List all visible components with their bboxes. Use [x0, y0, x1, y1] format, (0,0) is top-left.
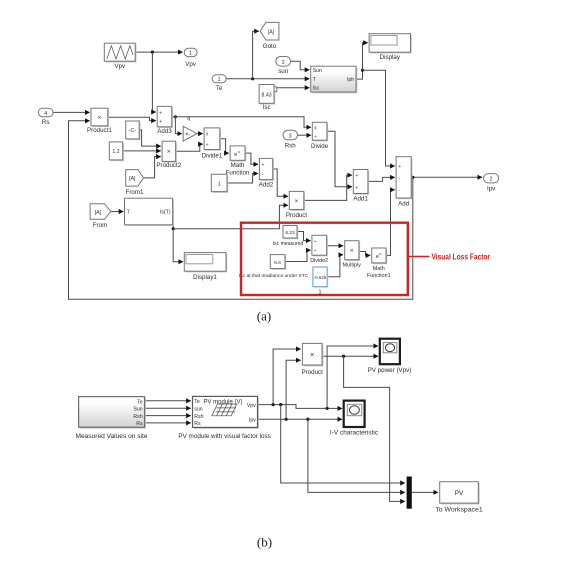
wire Math Function1 out to Add in3 [386, 190, 395, 256]
from tag [A] From [90, 204, 111, 229]
svg-text:1.2: 1.2 [112, 149, 119, 155]
wire Measured Rs to PV module Rs [145, 422, 191, 424]
wire Add1 out to Add in2 [368, 177, 395, 181]
product Product [286, 191, 308, 218]
wire Math Function out to Add2 in1 [245, 153, 258, 164]
wire Multiply out to Math Function1 [359, 252, 370, 256]
svg-text:×: × [310, 350, 314, 359]
wire Divide2 out to Multiply in1 [327, 245, 343, 247]
svg-text:Te: Te [137, 399, 143, 405]
svg-text:Function1: Function1 [367, 273, 391, 279]
svg-text:+: + [262, 163, 265, 169]
svg-text:Measured Values on site: Measured Values on site [76, 433, 149, 440]
svg-text:sun: sun [278, 68, 289, 75]
svg-text:-C-: -C- [129, 128, 136, 134]
svg-text:4: 4 [44, 111, 47, 117]
svg-text:Isc at that irradiance under S: Isc at that irradiance under STC [239, 273, 309, 279]
svg-text:×: × [167, 149, 171, 156]
product Product2 [156, 141, 181, 169]
svg-text:Display1: Display1 [193, 274, 217, 281]
svg-text:u: u [238, 149, 240, 154]
constant -C- [126, 121, 141, 140]
svg-text:Product: Product [302, 369, 324, 376]
svg-text:×: × [350, 248, 354, 255]
svg-text:+: + [355, 185, 358, 191]
inport 3 Rsh [283, 130, 298, 149]
svg-text:Sun: Sun [133, 406, 142, 412]
solar panel icon [212, 404, 237, 416]
svg-text:sun: sun [194, 406, 202, 412]
svg-text:6.6: 6.6 [274, 260, 281, 266]
svg-text:+: + [159, 110, 162, 116]
goto tag [A] [260, 22, 279, 49]
divide Divide1 [202, 128, 223, 160]
constant 8.43 Isc [259, 85, 277, 111]
wire Add3 out to Divide in1 [175, 117, 311, 127]
node junction Vpv 3 [326, 407, 329, 410]
node junction on Vpv wire [151, 51, 154, 54]
repeating-sequence source Vpv [104, 43, 136, 70]
constant -0.625 (blue) [313, 267, 329, 296]
from tag [A] From1 [126, 170, 144, 196]
svg-text:Vpv: Vpv [185, 61, 197, 68]
constant 1 [211, 174, 228, 193]
svg-text:Isc measured: Isc measured [273, 241, 304, 247]
wire From1 to Product2 in3 [143, 157, 160, 178]
wire Divide out to Add1 in2 [327, 131, 352, 187]
divide Divide2 [310, 235, 328, 263]
wire junction to Display1 [173, 229, 183, 262]
wire -C- to Product2 in1 [139, 130, 161, 146]
wire Vpv out to I-V characteristic in1 [258, 405, 343, 409]
svg-text:÷: ÷ [314, 135, 317, 141]
svg-text:Rsh: Rsh [133, 414, 142, 420]
svg-text:PV: PV [455, 490, 464, 497]
svg-text:Isc: Isc [263, 104, 271, 111]
svg-text:Divide: Divide [311, 143, 329, 150]
svg-text:Add3: Add3 [157, 128, 172, 135]
svg-text:[A]: [A] [95, 210, 102, 216]
wire 6.6 to Divide2 in2 [285, 250, 311, 261]
sum Add2 [259, 158, 274, 188]
scope PV power (Vpv) [368, 339, 412, 375]
svg-text:Add: Add [398, 200, 410, 207]
svg-text:-0.625: -0.625 [314, 275, 327, 280]
constant 6.23 Isc measured [273, 226, 304, 248]
svg-text:From1: From1 [126, 189, 144, 196]
svg-text:Divide2: Divide2 [310, 258, 328, 264]
wire -0.625 to Multiply in2 [327, 255, 343, 277]
wire Ipv down to Mux in2 [308, 419, 405, 492]
wire Add3 out to Gain input [172, 117, 182, 134]
wire Iph junction to Add in1 [363, 70, 395, 166]
wire Vpv junction down to Add3 in1 [152, 52, 155, 112]
wire Isc constant to subsystem Isc input [277, 87, 310, 89]
svg-text:Add2: Add2 [259, 181, 274, 188]
node junction on Te wire [251, 77, 254, 80]
svg-text:1: 1 [218, 77, 221, 83]
svg-text:+: + [398, 164, 401, 170]
subsystem Measured Values on site [76, 397, 149, 440]
svg-text:Te: Te [194, 399, 200, 405]
svg-text:Display: Display [380, 54, 401, 61]
node junction on power wire [342, 355, 345, 358]
outport 2 Ipv [484, 174, 499, 193]
svg-text:Divide1: Divide1 [202, 153, 223, 160]
wire Ipv out to I-V characteristic in2 [258, 418, 343, 420]
node junction Ipv 1 [285, 418, 288, 421]
node junction Ipv 2 [306, 418, 309, 421]
subsystem Is(T) [125, 198, 174, 226]
wire 6.23 to Divide2 in1 [297, 232, 311, 241]
svg-text:I-V characteristic: I-V characteristic [330, 430, 378, 437]
wire feedback loop Ipv to Product1 in2 [69, 121, 413, 299]
svg-text:×: × [97, 115, 101, 122]
svg-text:Vpv: Vpv [114, 63, 126, 70]
wire Vpv down to Mux in1 [281, 405, 405, 483]
wire Measured Te to PV module Te [145, 400, 191, 402]
wire Rsh inport to Divide in2 [298, 134, 311, 136]
svg-text:6.23: 6.23 [285, 230, 295, 236]
svg-text:Visual Loss Factor: Visual Loss Factor [432, 253, 491, 262]
svg-text:(b): (b) [257, 535, 272, 550]
inport 1 Te [212, 75, 226, 92]
svg-text:÷: ÷ [314, 249, 317, 255]
svg-text:÷: ÷ [314, 239, 317, 245]
math function Math Function1 e^u [367, 248, 391, 279]
display Display1 [184, 253, 227, 282]
wire Measured Rsh to PV module Rsh [145, 415, 191, 417]
gain -K- [183, 126, 197, 141]
node junction on Iph wire [361, 69, 364, 72]
wire Iph out up to junction [356, 70, 363, 79]
wire 1.2 to Product2 in2 [123, 150, 161, 152]
svg-text:2: 2 [490, 177, 493, 183]
svg-text:Math: Math [231, 162, 245, 169]
svg-text:To Workspace1: To Workspace1 [435, 506, 483, 513]
svg-text:[A]: [A] [268, 29, 275, 35]
wire Rs inport to Product1 in1 [53, 111, 90, 113]
mux [407, 477, 412, 509]
product Multiply [343, 241, 362, 269]
to workspace To Workspace1 PV [435, 482, 483, 514]
node junction Vpv 1 [272, 403, 275, 406]
svg-text:Function: Function [226, 169, 250, 176]
svg-text:Rsh: Rsh [194, 414, 203, 420]
svg-text:×: × [295, 198, 299, 205]
product Product (b) [302, 343, 324, 375]
svg-text:2: 2 [282, 60, 285, 66]
inport 2 sun [276, 57, 291, 75]
wire Iph junction to Display [363, 43, 368, 70]
svg-text:Math: Math [373, 266, 385, 272]
wire Product out to Add1 in1 [304, 175, 352, 200]
constant 1.2 [109, 142, 124, 161]
svg-text:1: 1 [189, 51, 192, 57]
divide Divide [311, 122, 329, 150]
wire Vpv source to outport Vpv [135, 51, 182, 53]
wire Te inport to subsystem T input [226, 78, 309, 80]
svg-text:PV module with visual factor l: PV module with visual factor loss [178, 433, 271, 440]
sum Add1 [353, 170, 369, 203]
svg-text:Rs: Rs [194, 421, 201, 427]
svg-text:Vpv: Vpv [247, 403, 256, 409]
wire power down to Mux in3 [344, 356, 405, 501]
sum Add [396, 157, 412, 208]
svg-text:Isc: Isc [313, 86, 320, 92]
wire Mux out to To Workspace1 [412, 491, 438, 493]
svg-text:Rsh: Rsh [285, 143, 297, 150]
subsystem PV module with visual factor loss [178, 396, 271, 440]
svg-text:Product2: Product2 [156, 162, 181, 169]
svg-text:3: 3 [289, 133, 292, 139]
wire Add2 out to Product in1 [273, 169, 288, 196]
svg-text:u: u [379, 251, 381, 256]
annotation red connector line [408, 256, 430, 258]
wire sun inport to subsystem Sun input [291, 61, 310, 70]
constant 6.6 Isc at that irradiance under STC [239, 255, 309, 279]
svg-text:Add1: Add1 [353, 195, 368, 202]
svg-text:Multiply: Multiply [343, 263, 362, 269]
svg-text:+: + [355, 173, 358, 179]
svg-text:+: + [159, 119, 162, 125]
svg-text:Goto: Goto [263, 43, 277, 50]
svg-text:q: q [187, 116, 190, 122]
wire Product out to PV power scope in2 [322, 355, 378, 357]
svg-text:Sun: Sun [313, 68, 322, 74]
wire Vpv to Product in1 [273, 349, 301, 405]
wire Vpv up to PV power scope in1 [327, 346, 378, 408]
node junction on Ipv output wire [411, 176, 414, 179]
node junction Vpv 2 [279, 403, 282, 406]
svg-text:Ipv: Ipv [487, 185, 496, 192]
wire Ipv to Product in2 [286, 360, 301, 419]
sum Add3 [157, 106, 173, 134]
subsystem Iph (Sun,T,Isc -> Iph) [311, 66, 358, 93]
svg-text:[A]: [A] [129, 176, 136, 182]
wire Is(T) out down to junction [172, 212, 175, 229]
display Display [369, 34, 412, 61]
wire constant 1 to Add2 in2 [227, 174, 258, 184]
svg-text:(a): (a) [257, 308, 271, 323]
wire From tag to Is(T) subsystem input [111, 211, 124, 213]
wire Add out to outport Ipv [411, 176, 482, 178]
product Product1 [87, 108, 112, 134]
svg-text:Is(T): Is(T) [160, 210, 171, 216]
svg-text:Rs: Rs [42, 119, 50, 126]
scope I-V characteristic [330, 401, 378, 437]
svg-text:1: 1 [218, 181, 221, 187]
node junction at Add3 output [174, 115, 177, 118]
wire Product2 out to Divide1 in2 [176, 144, 203, 151]
svg-text:÷: ÷ [206, 143, 209, 149]
outport 1 Vpv [184, 48, 197, 68]
svg-text:PV power (Vpv): PV power (Vpv) [368, 367, 412, 374]
wire Product1 out to Add3 in2 [108, 117, 156, 120]
wire Te junction up to Goto tag [253, 31, 259, 79]
svg-text:Rs: Rs [136, 421, 143, 427]
svg-text:Ipv: Ipv [249, 417, 256, 423]
svg-text:Iph: Iph [347, 77, 354, 83]
node junction under Is(T) [172, 227, 175, 230]
svg-text:From: From [93, 222, 107, 229]
math function e^u [226, 146, 250, 177]
wire junction to Product in2 [173, 205, 288, 228]
annotation red box Visual Loss Factor [241, 223, 408, 295]
svg-text:-K-: -K- [184, 131, 190, 136]
wire Gain out to Divide1 in1 [197, 133, 203, 135]
svg-text:8.43: 8.43 [262, 92, 272, 98]
svg-text:Product: Product [286, 212, 308, 219]
wire Divide1 out to Math Function [220, 139, 229, 153]
svg-text:Product1: Product1 [87, 127, 112, 134]
inport 4 Rs [38, 108, 53, 126]
wire Measured Sun to PV module sun [145, 407, 191, 409]
svg-text:Te: Te [216, 85, 223, 92]
